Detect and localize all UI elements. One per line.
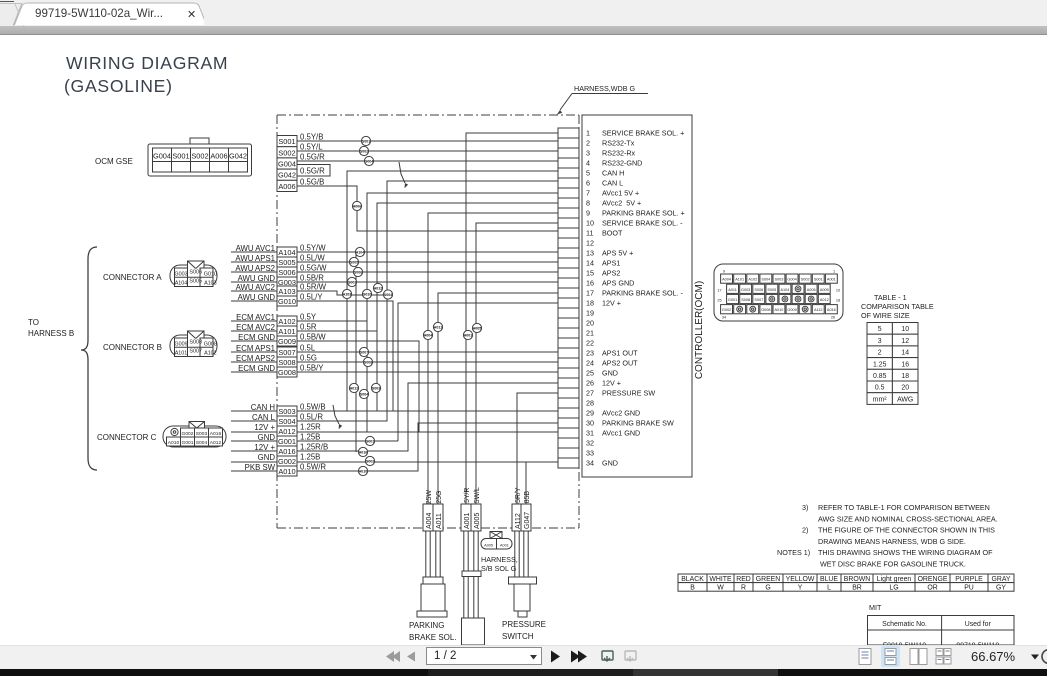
wire S007 0.5L to pin23 [231,351,558,353]
svg-text:S003: S003 [278,407,295,416]
svg-text:17: 17 [717,289,721,293]
svg-text:AWU GND: AWU GND [238,274,276,283]
pin box S003 with signal CAN H 0.5W/B [251,403,326,417]
svg-text:NOTES 1): NOTES 1) [777,548,810,557]
svg-text:12V +: 12V + [602,379,621,388]
svg-text:S005: S005 [189,279,202,285]
svg-text:G003: G003 [278,278,296,287]
svg-text:8: 8 [586,199,590,208]
pin box S008 with signal ECM APS2 0.5G [236,354,317,368]
svg-text:2: 2 [586,139,590,148]
svg-text:A005: A005 [474,513,481,529]
window corner dark line [0,1,14,3]
svg-text:25: 25 [586,369,594,378]
svg-text:SERVICE BRAKE SOL. +: SERVICE BRAKE SOL. + [602,129,684,138]
svg-text:A011: A011 [728,288,737,292]
svg-text:B: B [690,584,695,591]
node A010 splice [358,466,367,475]
svg-text:0.5G/B: 0.5G/B [300,178,324,187]
svg-text:S004: S004 [384,293,392,297]
svg-text:APS1 OUT: APS1 OUT [602,349,638,358]
svg-text:A104: A104 [175,281,188,287]
svg-text:THIS DRAWING SHOWS THE WIRING: THIS DRAWING SHOWS THE WIRING DIAGRAM OF [818,548,993,557]
svg-text:26: 26 [831,316,835,320]
svg-text:S003: S003 [372,386,380,390]
node G003 splice [347,277,356,286]
brace to harness B [81,247,97,470]
svg-text:G003: G003 [741,288,750,292]
svg-text:1.25: 1.25 [873,361,887,368]
svg-text:16: 16 [901,361,909,368]
wire pin17 to A011 column [438,293,558,531]
svg-text:25: 25 [717,299,721,303]
svg-text:A103: A103 [278,287,295,296]
svg-text:AVcc2 GND: AVcc2 GND [602,409,640,418]
label box G047 [521,504,531,531]
splice rectangle on service brake wires [462,571,481,577]
svg-text:G042: G042 [278,171,296,180]
node A012 splice [373,283,382,292]
node S005 splice [349,257,358,266]
node A104 splice [355,247,364,256]
svg-text:0.5R: 0.5R [300,323,317,332]
svg-text:WET DISC BRAKE FOR GASOLINE TR: WET DISC BRAKE FOR GASOLINE TRUCK. [820,559,966,568]
wire A011 lower double segment [436,531,440,577]
svg-text:33: 33 [586,449,594,458]
node A006 splice [352,201,361,210]
svg-text:S007: S007 [754,298,763,302]
svg-text:ECM AVC1: ECM AVC1 [236,313,275,322]
two page continuous icon [936,649,951,665]
svg-text:1.25B: 1.25B [300,453,320,462]
wire S002 0.5Y/L to pin3 [297,150,558,152]
wire pin9 to A004 column [428,213,558,531]
svg-text:A006: A006 [210,152,227,161]
svg-text:CAN L: CAN L [602,179,623,188]
svg-text:S001: S001 [278,137,295,146]
svg-text:S008: S008 [364,360,372,364]
svg-text:L: L [827,584,831,591]
svg-text:GND: GND [602,369,618,378]
svg-text:0.5Y/W: 0.5Y/W [300,244,326,253]
continuous layout icon highlighted [881,646,900,667]
svg-text:0.5B/Y: 0.5B/Y [300,364,324,373]
svg-text:GND: GND [602,459,618,468]
node A001 splice [463,330,472,339]
node A011 splice [433,322,442,331]
svg-text:BR: BR [852,584,862,591]
svg-text:G002: G002 [182,431,194,437]
svg-text:Schematic No.: Schematic No. [882,621,927,628]
wire pin27 to A112 column [517,393,558,531]
svg-text:0.5: 0.5 [875,385,885,392]
svg-text:S005: S005 [278,258,295,267]
svg-text:0.5L: 0.5L [300,344,316,353]
previous view icon [602,651,613,661]
svg-text:DRAWING MEANS HARNESS, WDB G S: DRAWING MEANS HARNESS, WDB G SIDE. [818,537,966,546]
svg-text:S006: S006 [354,270,362,274]
svg-text:BROWN: BROWN [844,576,870,583]
svg-text:A112: A112 [814,308,823,312]
wire AVcc2 net pin8 [377,203,558,411]
svg-text:RS232-GND: RS232-GND [602,159,642,168]
node S006 splice [353,267,362,276]
wire G009 0.5B/W to A012 row [231,341,419,432]
wire G047 lower double segment [524,531,528,577]
zoom dropdown arrow [1031,655,1039,660]
svg-text:11: 11 [586,229,593,238]
svg-text:2: 2 [878,350,882,357]
svg-text:LG: LG [889,584,898,591]
svg-text:A016: A016 [827,308,836,312]
svg-text:SERVICE BRAKE SOL. -: SERVICE BRAKE SOL. - [602,219,683,228]
svg-text:GND: GND [258,433,276,442]
svg-text:27: 27 [586,389,594,398]
label PRESSURE SWITCH [502,620,546,641]
node S007 splice [359,347,368,356]
svg-text:A006: A006 [353,204,362,208]
svg-text:A010: A010 [359,469,368,473]
svg-text:0.5Y/B: 0.5Y/B [300,133,323,142]
pressure switch symbol [509,577,537,617]
svg-text:A101: A101 [175,351,188,357]
pin box A010 with signal PKB SW 0.5W/R [245,463,327,477]
svg-text:G001: G001 [728,298,737,302]
svg-text:A104: A104 [356,250,365,254]
svg-text:A001: A001 [500,543,509,547]
inactive partial tab [0,3,22,26]
svg-text:(GASOLINE): (GASOLINE) [64,76,173,96]
svg-text:20: 20 [901,385,909,392]
svg-text:AWU AVC1: AWU AVC1 [236,244,275,253]
node G002 splice [365,456,374,465]
svg-text:A104: A104 [278,248,295,257]
svg-text:AVcc2 5V +: AVcc2 5V + [602,199,641,208]
svg-text:G001: G001 [278,437,296,446]
svg-text:1: 1 [833,270,835,274]
svg-text:S002: S002 [278,148,295,157]
svg-text:A011: A011 [436,513,443,529]
svg-text:AVcc1 5V +: AVcc1 5V + [602,189,639,198]
slash mark lower [333,405,342,429]
svg-text:0.5G: 0.5G [300,354,317,363]
svg-text:A011: A011 [434,325,442,329]
wire S001 0.5Y/B to pin2 [297,140,558,142]
wire A006 0.5G/B to pin11 [297,186,558,231]
svg-text:G003: G003 [174,272,187,278]
svg-text:APS1: APS1 [602,259,620,268]
svg-text:15: 15 [586,269,594,278]
svg-text:HARNESS,: HARNESS, [481,555,518,564]
svg-text:3: 3 [586,149,590,158]
svg-text:OR: OR [927,584,937,591]
browser tab bar [0,0,1047,26]
zoom percent text [971,649,1015,664]
wire G008 0.5B/Y to pin25 GND net [231,371,558,373]
svg-text:A004: A004 [424,333,433,337]
node S004 splice [383,290,392,299]
label HARNESS, S/B SOL G [481,555,518,573]
svg-text:TABLE - 1: TABLE - 1 [874,293,907,302]
svg-text:A103: A103 [204,281,217,287]
pin box G003 with signal AWU GND 0.5B/R [238,274,325,288]
svg-text:0.5G/W: 0.5G/W [300,264,327,273]
pin box S004 with signal CAN L 0.5L/R [252,413,323,427]
wire size labels 0.5Y/B 0.5Y/L 0.5G/R 0.5G/B [300,133,325,187]
pin box S007 with signal ECM APS1 0.5L [236,344,316,358]
svg-text:12: 12 [901,338,909,345]
svg-text:A102: A102 [204,351,217,357]
wire A004 lower double segment [426,531,430,577]
svg-text:3: 3 [878,338,882,345]
svg-text:ECM APS1: ECM APS1 [236,344,275,353]
svg-text:0.5R/W: 0.5R/W [300,283,327,292]
pin box A101 with signal ECM AVC2 0.5R [236,323,317,337]
svg-text:G009: G009 [787,308,796,312]
svg-text:12: 12 [586,239,594,248]
connector A005 A001 harness S/B SOL G [481,532,512,550]
svg-text:A101: A101 [735,278,744,282]
svg-text:PU: PU [964,584,974,591]
svg-text:CAN H: CAN H [251,403,275,412]
gray strip under tabs [0,26,1047,35]
label box A112 [512,504,522,531]
svg-text:29: 29 [586,409,594,418]
svg-text:1.25R/B: 1.25R/B [300,443,328,452]
svg-text:34: 34 [722,316,726,320]
wire A016 1.25R/B to pin26 [231,383,558,451]
wire A005 lower double segment [474,531,478,618]
svg-text:YELLOW: YELLOW [786,576,815,583]
svg-text:A004: A004 [426,513,433,529]
wire A012 1.25R row to pin31 [231,431,558,433]
wire AWU bus vertical [355,252,357,452]
svg-text:CONNECTOR A: CONNECTOR A [103,273,162,282]
svg-text:PURPLE: PURPLE [955,576,983,583]
svg-text:G: G [765,584,770,591]
svg-text:G002: G002 [722,308,731,312]
svg-text:S004: S004 [761,278,770,282]
svg-text:BRAKE SOL.: BRAKE SOL. [409,633,457,642]
svg-text:MIT: MIT [869,603,882,612]
node A004 splice [423,330,432,339]
svg-text:PARKING BRAKE SW: PARKING BRAKE SW [602,419,674,428]
svg-text:6: 6 [586,179,590,188]
svg-text:PRESSURE SW: PRESSURE SW [602,389,655,398]
harness boundary dash-dot top [277,114,579,116]
wire A104 0.5Y/W to pin13 [231,251,558,253]
svg-text:G001: G001 [366,439,375,443]
connector C [163,422,226,448]
wire G003 0.5B/R to pin16 [231,281,558,283]
label HARNESS,WDB G with leader arrow [557,84,648,115]
svg-text:A006: A006 [807,288,816,292]
svg-text:10: 10 [836,289,840,293]
svg-text:9: 9 [586,209,590,218]
svg-text:RS232-Tx: RS232-Tx [602,139,635,148]
svg-text:S002: S002 [191,152,208,161]
svg-text:CONTROLLER(OCM): CONTROLLER(OCM) [694,281,705,379]
first page button disabled [386,651,400,662]
node G004 splice [364,156,373,165]
black bottom bar [0,669,1047,676]
svg-text:OCM GSE: OCM GSE [95,157,133,166]
svg-text:Y: Y [798,584,803,591]
wire G001 1.25B row [231,440,398,442]
svg-text:HARNESS,WDB G: HARNESS,WDB G [574,84,636,93]
wire G004 0.5G/R to pin4 [297,160,558,162]
svg-text:A005: A005 [484,543,493,547]
wire S005 0.5L/W to pin14 [231,261,558,263]
label PARKING BRAKE SOL. [409,621,457,642]
svg-text:19: 19 [586,309,594,318]
notes text block [777,503,998,568]
connector A [170,261,217,287]
service brake solenoid box (cut off) [462,618,485,645]
pin box A016 with signal 12V + 1.25R/B [254,443,328,457]
node G010 splice [362,289,371,298]
svg-text:AWG SIZE AND NOMINAL CROSS-SEC: AWG SIZE AND NOMINAL CROSS-SECTIONAL ARE… [818,514,998,523]
svg-text:G009: G009 [174,342,187,348]
svg-text:A012: A012 [210,440,222,446]
node G001 splice [365,436,374,445]
next page button [551,651,560,663]
svg-text:APS 5V +: APS 5V + [602,249,633,258]
schematic number table [868,616,1015,650]
toolbar icons [0,645,1047,676]
label box A011 [433,504,443,531]
svg-text:12V +: 12V + [254,423,275,432]
pin box G002 with signal GND 1.25B [258,453,321,467]
page combo box [426,647,542,665]
svg-text:A104: A104 [781,288,790,292]
svg-text:A010: A010 [168,440,180,446]
svg-text:APS2 OUT: APS2 OUT [602,359,638,368]
svg-text:31: 31 [586,429,594,438]
svg-text:TO: TO [28,318,39,327]
title text WIRING DIAGRAM (GASOLINE) [64,53,228,96]
svg-text:A001: A001 [827,278,836,282]
wire G047 column [525,462,527,531]
svg-text:AWU APS2: AWU APS2 [235,264,275,273]
svg-text:1.25R: 1.25R [300,423,321,432]
svg-text:APS GND: APS GND [602,279,634,288]
svg-text:G009: G009 [278,337,296,346]
wire S008 0.5G to pin24 [231,361,558,363]
svg-text:S004: S004 [360,392,368,396]
wire A001 lower double segment [464,531,468,618]
svg-text:PARKING: PARKING [409,621,444,630]
svg-text:9: 9 [723,270,725,274]
svg-text:S003: S003 [775,278,784,282]
svg-text:RED: RED [736,576,751,583]
svg-text:S008: S008 [189,340,202,346]
pin box G009 with signal ECM GND 0.5B/W [238,333,326,347]
svg-text:S007: S007 [278,348,295,357]
svg-text:0.5B/W: 0.5B/W [300,333,326,342]
prev page button disabled [407,652,415,662]
node S003 splice [371,383,380,392]
controller U1 box CONTROLLER(OCM) [582,115,692,477]
svg-text:ECM GND: ECM GND [238,333,275,342]
svg-text:OF WIRE SIZE: OF WIRE SIZE [861,311,910,320]
wire CAN L S004 to pin6 [231,181,558,421]
svg-text:S/B SOL G: S/B SOL G [481,564,517,573]
svg-text:A102: A102 [278,317,295,326]
svg-text:26: 26 [586,379,594,388]
pin box A104 with signal AWU AVC1 0.5Y/W [236,244,327,258]
pin box G001 with signal GND 1.25B [258,433,321,447]
svg-text:A012: A012 [278,427,295,436]
svg-text:GRAY: GRAY [991,576,1010,583]
svg-text:28: 28 [586,399,594,408]
svg-text:A016: A016 [210,431,222,437]
svg-text:S008: S008 [741,298,750,302]
svg-text:A010: A010 [775,308,784,312]
zoom tool circle cut off [1042,650,1047,664]
label TO HARNESS B [28,318,74,338]
svg-text:13: 13 [586,249,594,258]
tab title [35,7,163,20]
svg-text:COMPARISON TABLE: COMPARISON TABLE [861,302,934,311]
svg-text:AVcc1 GND: AVcc1 GND [602,429,640,438]
label box A004 [423,504,433,531]
wire GND net vertical [397,372,399,441]
svg-text:S008: S008 [278,358,295,367]
svg-text:CONNECTOR C: CONNECTOR C [97,433,157,442]
active tab [14,1,204,25]
pin box A102 with signal ECM AVC1 0.5Y [236,313,317,327]
svg-text:RS232-Rx: RS232-Rx [602,149,636,158]
svg-text:A010: A010 [278,467,295,476]
svg-text:S004: S004 [278,417,295,426]
svg-text:1: 1 [586,129,590,138]
svg-text:20: 20 [586,319,594,328]
svg-text:S005: S005 [767,288,776,292]
svg-text:S006: S006 [189,270,202,276]
svg-text:0.5G/R: 0.5G/R [300,153,325,162]
node S001 splice [361,136,370,145]
svg-text:7: 7 [586,189,590,198]
wire S006 0.5G/W to pin15 [231,271,558,273]
svg-text:ORENGE: ORENGE [918,576,948,583]
last page button [571,651,587,663]
svg-text:A012: A012 [820,298,829,302]
svg-text:G004: G004 [365,159,374,163]
svg-text:S007: S007 [189,349,202,355]
svg-text:32: 32 [586,439,594,448]
svg-text:ECM AVC2: ECM AVC2 [236,323,275,332]
pin box A012 with signal 12V + 1.25R [254,423,321,437]
svg-text:S001: S001 [362,139,370,143]
node S004 splice [359,389,368,398]
label box A001 [461,504,471,531]
svg-text:5: 5 [878,326,882,333]
svg-text:G008: G008 [204,342,217,348]
svg-text:CAN L: CAN L [252,413,276,422]
wire AVcc1 net pin7 [367,193,558,432]
label box A005 [471,504,481,531]
svg-text:AWU APS1: AWU APS1 [235,254,275,263]
svg-text:G042: G042 [229,152,247,161]
svg-text:S002: S002 [801,278,810,282]
svg-text:A005: A005 [473,326,482,330]
svg-text:G008: G008 [761,308,770,312]
svg-text:CONNECTOR B: CONNECTOR B [103,343,162,352]
svg-text:PARKING BRAKE SOL. -: PARKING BRAKE SOL. - [602,289,684,298]
svg-text:A012: A012 [350,386,359,390]
svg-text:5: 5 [586,169,590,178]
